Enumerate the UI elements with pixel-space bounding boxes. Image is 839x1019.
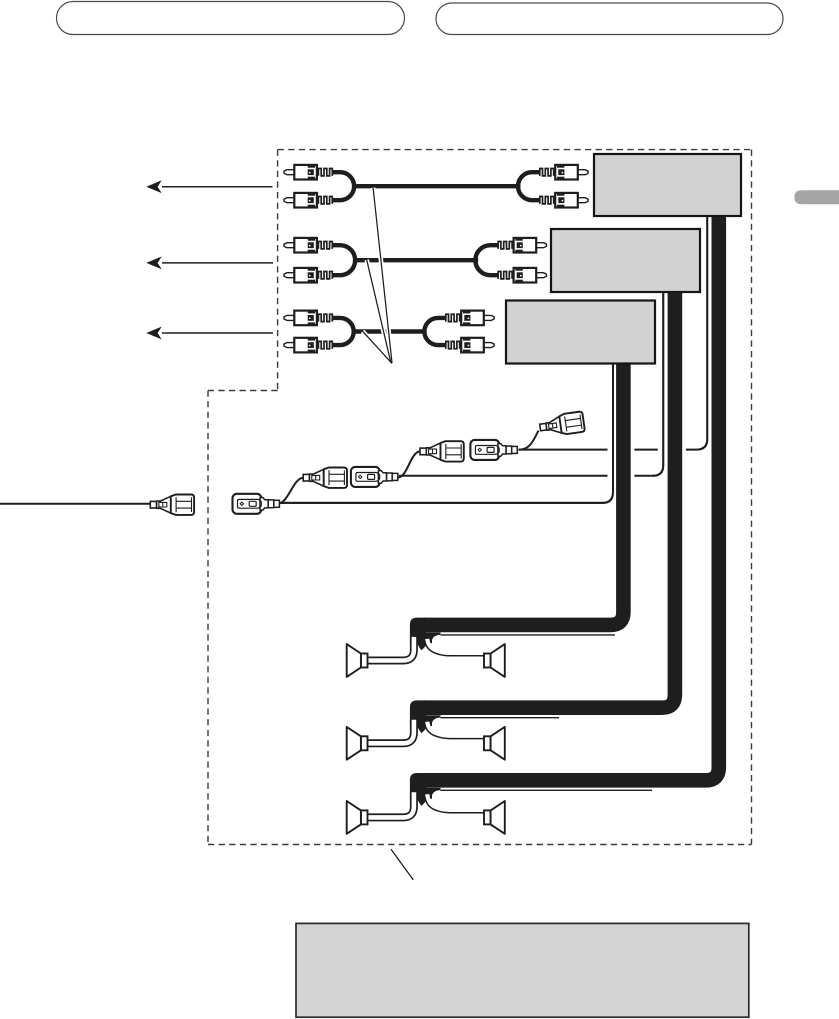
top-left rounded label box bbox=[57, 2, 405, 35]
wire from box3 bbox=[280, 357, 613, 503]
cable from box2 to speaker row 2 bbox=[424, 286, 675, 708]
right wire white core row2 bbox=[427, 722, 449, 736]
left tube row3 bbox=[368, 792, 414, 817]
right speaker row3 bbox=[484, 801, 505, 834]
RCA plug row1 upper-left bbox=[284, 165, 332, 180]
cable end funnel stub row3 bbox=[410, 773, 441, 806]
female2 bbox=[351, 467, 398, 487]
pigtail female1 to male2 bbox=[279, 478, 304, 504]
RCA plug row2 lower-right bbox=[498, 268, 546, 283]
cable end funnel stub bbox=[410, 618, 441, 651]
hairline under cable row2 bbox=[441, 717, 560, 719]
left speaker row3 bbox=[347, 801, 368, 834]
thick speaker cables bbox=[424, 210, 719, 780]
RCA plug row2 upper-left bbox=[284, 238, 332, 253]
arrow 1 bbox=[162, 186, 273, 188]
amp box 3 bbox=[506, 301, 655, 364]
male2 bbox=[303, 468, 347, 488]
right speaker row1 bbox=[484, 644, 505, 677]
male0 spade connector (outside dashed box) bbox=[150, 495, 194, 515]
arrow 2 bbox=[162, 262, 273, 264]
female1 bbox=[233, 494, 280, 514]
amp box 2 bbox=[551, 229, 700, 292]
interconnect cable bbox=[353, 184, 521, 188]
left pair U curve bbox=[333, 172, 354, 200]
bottom note box bbox=[296, 923, 749, 1017]
amp box 1 bbox=[594, 154, 741, 216]
thin wires from amp boxes down to spade connector lines bbox=[280, 210, 707, 503]
right wire white core bbox=[427, 639, 449, 653]
funnel bottom outline row2 bbox=[425, 723, 484, 739]
cable from box1 to speaker row 3 bbox=[424, 210, 719, 780]
left speaker row2 bbox=[347, 727, 368, 760]
wire from box1 bbox=[519, 210, 707, 450]
leader line to row1 cable bbox=[373, 188, 392, 363]
right page tab bbox=[794, 190, 839, 204]
right wire white core row3 bbox=[427, 794, 449, 810]
pigtail female3 to male4 bbox=[519, 431, 539, 450]
wire from page edge to male0 bbox=[0, 503, 151, 505]
male3 bbox=[420, 441, 464, 461]
funnel bottom outline row3 bbox=[425, 796, 484, 813]
left tube row2 bbox=[368, 720, 414, 744]
arrow 3 bbox=[162, 332, 273, 334]
cable from box3 to speaker row 1 bbox=[424, 357, 623, 625]
funnel bottom outline bbox=[425, 640, 484, 656]
RCA plug row2 lower-left bbox=[284, 268, 332, 283]
dashed border upper box bbox=[208, 150, 752, 845]
right pair U curve bbox=[518, 172, 539, 200]
RCA plug row1 lower-left bbox=[284, 193, 332, 208]
top-right rounded label box bbox=[436, 3, 783, 35]
hairline under cable bbox=[441, 634, 616, 636]
RCA plug row1 upper-right bbox=[540, 165, 588, 180]
left speaker row1 bbox=[347, 644, 368, 677]
wire verticals redrawn over cable halos bbox=[280, 210, 707, 503]
left tube bbox=[368, 637, 414, 661]
leader lines to RCA cables bbox=[363, 188, 392, 364]
female3 bbox=[470, 440, 517, 460]
RCA plug row3 lower-left bbox=[284, 338, 332, 353]
RCA plug row3 upper-left bbox=[284, 311, 332, 326]
RCA plug row3 lower-right bbox=[446, 338, 494, 353]
male4 tilted bbox=[539, 411, 585, 437]
right speaker row2 bbox=[484, 727, 505, 760]
RCA plug row3 upper-right bbox=[446, 311, 494, 326]
cable end funnel stub row2 bbox=[410, 700, 441, 733]
RCA plug row1 lower-right bbox=[540, 193, 588, 208]
pigtail female2 to male3 bbox=[398, 451, 420, 477]
wire from box2 bbox=[399, 286, 663, 476]
hairline under cable row3 bbox=[441, 789, 653, 791]
bottom leader line bbox=[391, 849, 413, 879]
RCA plug row2 upper-right bbox=[498, 238, 546, 253]
